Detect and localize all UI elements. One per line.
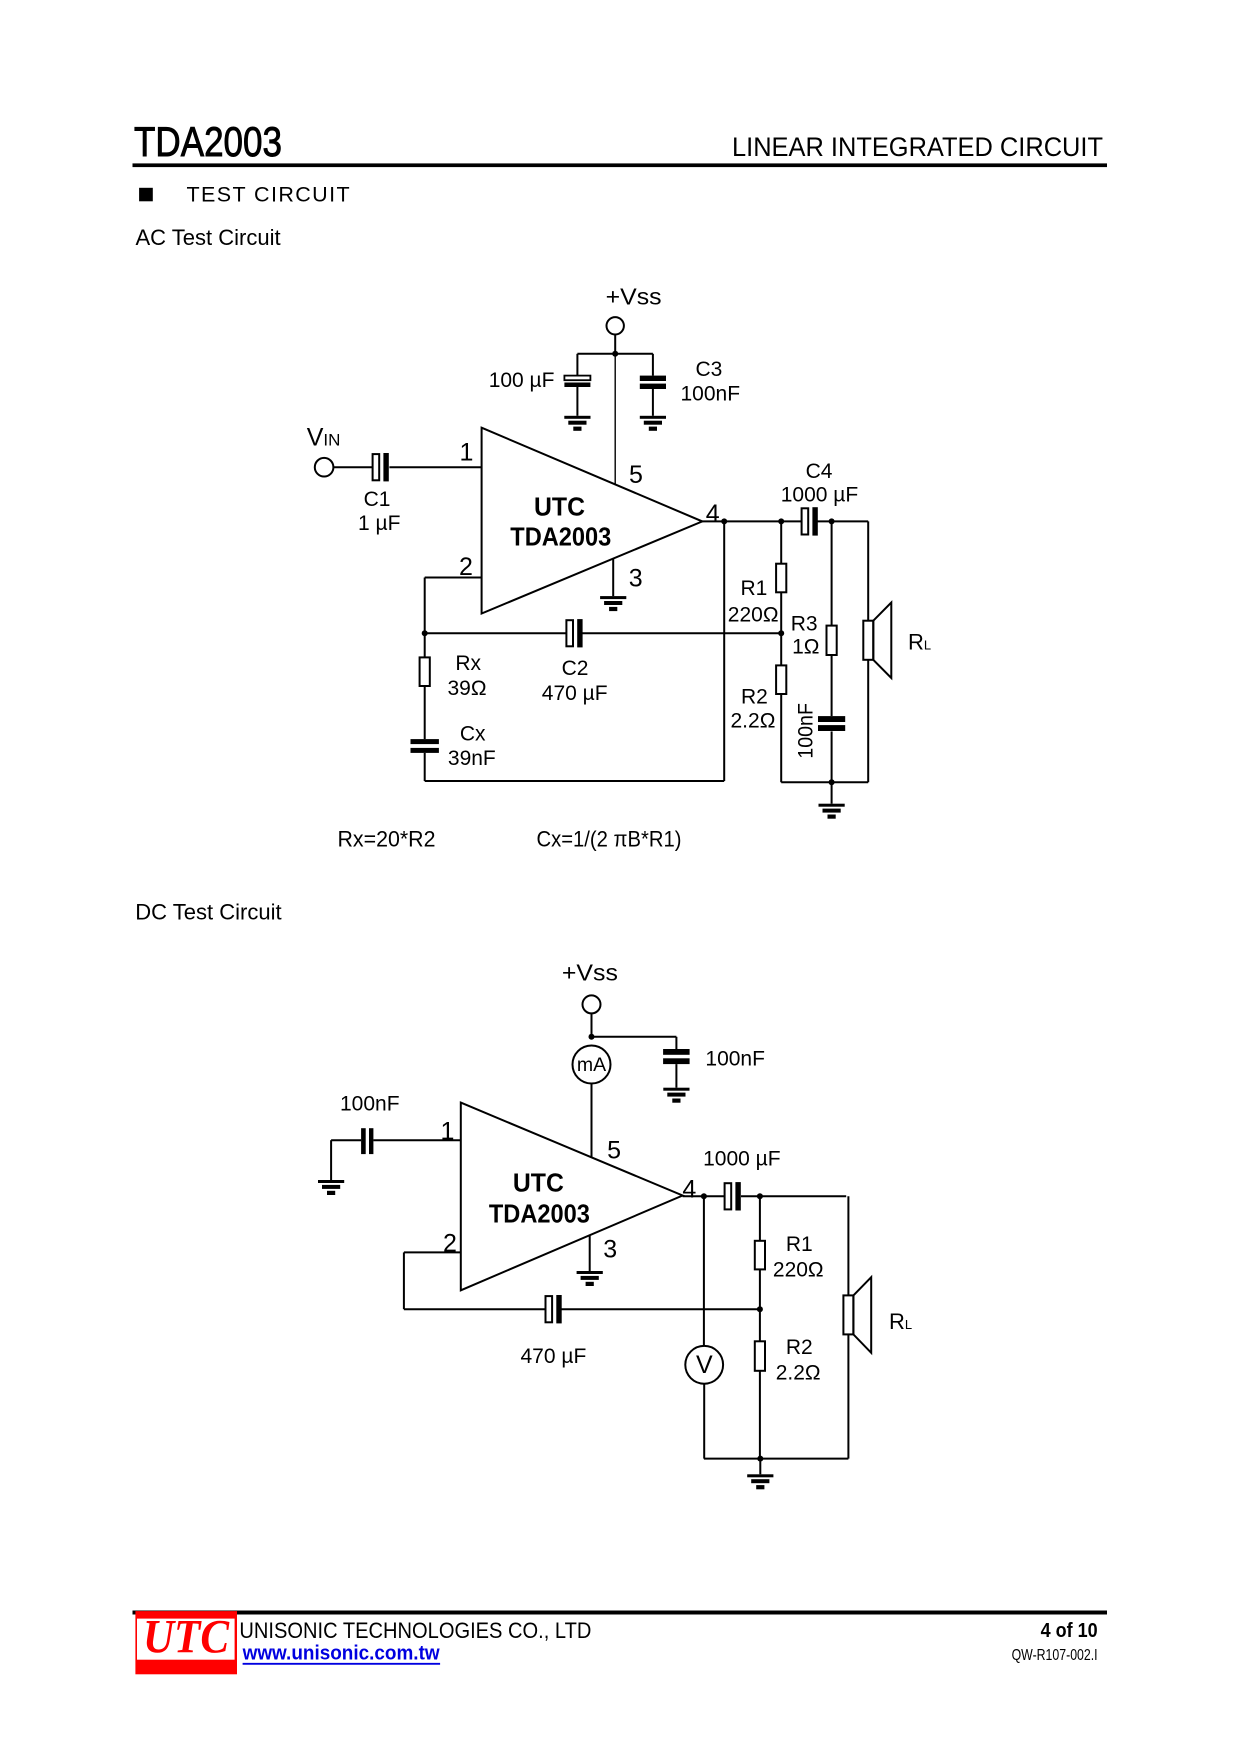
svg-text:220Ω: 220Ω [728, 603, 779, 626]
svg-text:100nF: 100nF [340, 1093, 400, 1116]
svg-text:LINEAR INTEGRATED CIRCUIT: LINEAR INTEGRATED CIRCUIT [732, 132, 1103, 162]
svg-text:100nF: 100nF [705, 1047, 765, 1070]
svg-text:Rx=20*R2: Rx=20*R2 [338, 827, 436, 852]
svg-text:R2: R2 [741, 685, 768, 708]
svg-text:470 µF: 470 µF [542, 682, 608, 705]
svg-text:TDA2003: TDA2003 [134, 118, 282, 165]
svg-text:4: 4 [682, 1175, 696, 1203]
svg-text:100nF: 100nF [681, 383, 741, 406]
svg-text:V: V [696, 1351, 713, 1379]
svg-text:1000 µF: 1000 µF [703, 1148, 780, 1171]
svg-text:1Ω: 1Ω [792, 636, 819, 659]
svg-text:1: 1 [441, 1117, 455, 1145]
svg-text:UTC: UTC [513, 1168, 564, 1198]
svg-text:DC Test Circuit: DC Test Circuit [135, 900, 281, 925]
svg-text:C3: C3 [696, 358, 723, 381]
svg-text:+Vss: +Vss [562, 960, 618, 986]
svg-text:R2: R2 [786, 1336, 813, 1359]
svg-text:1000 µF: 1000 µF [781, 483, 858, 506]
svg-text:UTC: UTC [143, 1611, 230, 1664]
svg-text:2.2Ω: 2.2Ω [776, 1361, 821, 1384]
svg-text:R3: R3 [791, 613, 818, 636]
svg-text:TEST CIRCUIT: TEST CIRCUIT [187, 183, 352, 207]
svg-text:UNISONIC TECHNOLOGIES CO., LTD: UNISONIC TECHNOLOGIES CO., LTD [239, 1618, 591, 1643]
svg-text:39nF: 39nF [448, 747, 496, 770]
svg-text:470 µF: 470 µF [520, 1345, 586, 1368]
svg-text:mA: mA [577, 1054, 606, 1076]
svg-text:TDA2003: TDA2003 [510, 521, 611, 551]
svg-text:Cx: Cx [460, 723, 486, 746]
svg-text:100 µF: 100 µF [489, 369, 555, 392]
svg-text:C1: C1 [364, 488, 391, 511]
svg-text:AC Test Circuit: AC Test Circuit [136, 225, 281, 250]
svg-text:4: 4 [706, 500, 720, 528]
svg-text:1 µF: 1 µF [358, 512, 400, 535]
svg-text:www.unisonic.com.tw: www.unisonic.com.tw [242, 1642, 440, 1665]
svg-text:C2: C2 [562, 657, 589, 680]
svg-text:4 of 10: 4 of 10 [1041, 1619, 1098, 1642]
svg-text:100nF: 100nF [795, 703, 818, 759]
svg-text:R1: R1 [786, 1233, 813, 1256]
svg-text:QW-R107-002.I: QW-R107-002.I [1012, 1647, 1098, 1664]
svg-text:39Ω: 39Ω [448, 677, 487, 700]
svg-text:R1: R1 [741, 577, 768, 600]
svg-text:220Ω: 220Ω [773, 1258, 824, 1281]
svg-text:3: 3 [603, 1235, 617, 1263]
svg-text:TDA2003: TDA2003 [489, 1199, 590, 1229]
svg-text:3: 3 [629, 565, 643, 593]
svg-text:UTC: UTC [534, 491, 585, 521]
svg-text:2.2Ω: 2.2Ω [731, 710, 776, 733]
svg-text:Cx=1/(2 πB*R1): Cx=1/(2 πB*R1) [537, 827, 682, 852]
svg-text:C4: C4 [806, 460, 833, 483]
svg-text:+Vss: +Vss [606, 284, 662, 310]
svg-text:5: 5 [629, 461, 643, 489]
svg-text:Rx: Rx [455, 652, 481, 675]
svg-text:5: 5 [607, 1137, 621, 1165]
svg-text:1: 1 [460, 439, 474, 467]
